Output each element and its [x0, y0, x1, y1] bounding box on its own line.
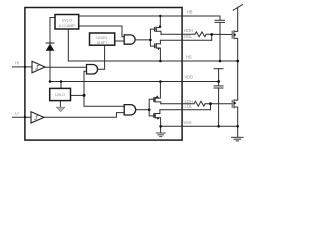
svg-text:LEVEL: LEVEL [96, 36, 107, 40]
svg-text:HOH: HOH [184, 28, 193, 33]
svg-text:HB: HB [187, 9, 193, 14]
svg-text:& CLAMP: & CLAMP [59, 24, 76, 28]
svg-text:LI: LI [15, 111, 18, 116]
svg-text:HOL: HOL [184, 34, 193, 39]
svg-text:VSS: VSS [184, 120, 192, 125]
svg-text:HS: HS [186, 54, 192, 59]
svg-text:HI: HI [15, 60, 19, 65]
svg-text:SHIFT: SHIFT [97, 41, 108, 45]
svg-text:VDD: VDD [185, 74, 194, 79]
svg-text:LOL: LOL [185, 103, 193, 108]
svg-text:UVLO: UVLO [55, 93, 65, 97]
svg-text:UVLO: UVLO [62, 19, 72, 23]
